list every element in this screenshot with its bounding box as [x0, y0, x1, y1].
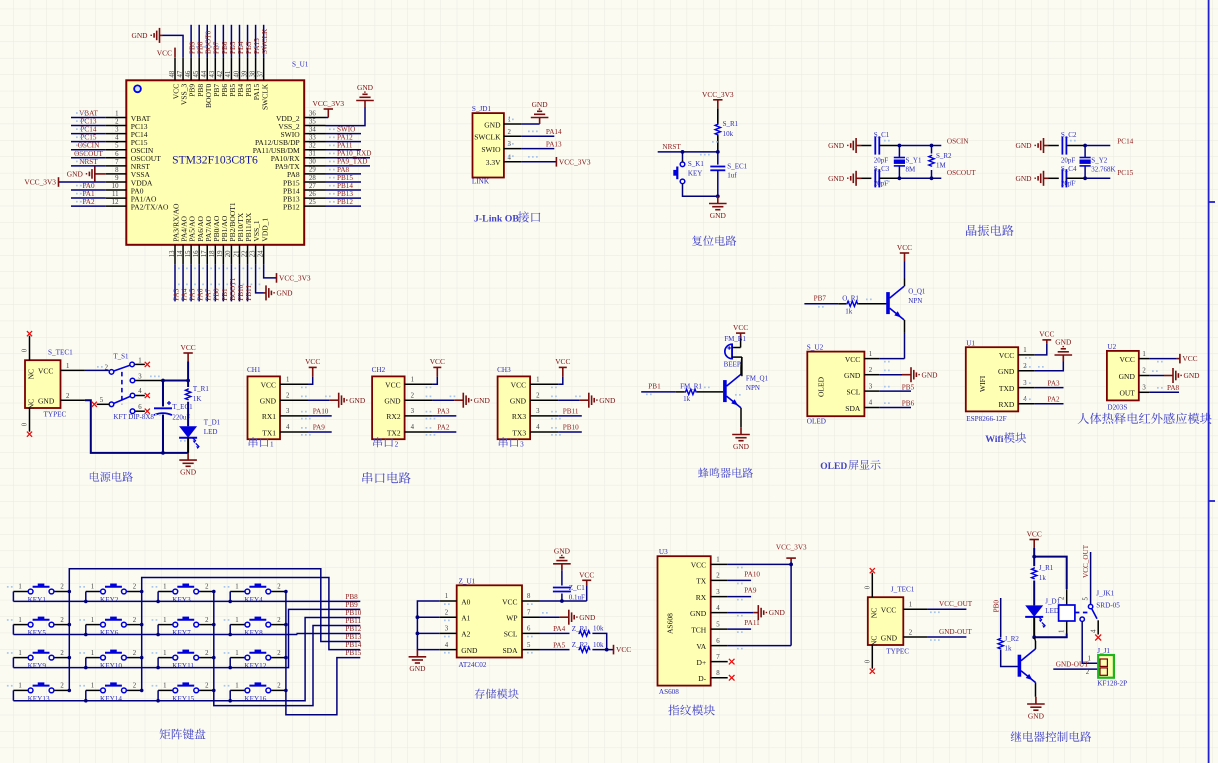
- svg-text:SCL: SCL: [504, 630, 518, 639]
- svg-text:5: 5: [527, 642, 531, 649]
- svg-text:OLED: OLED: [807, 418, 826, 426]
- svg-text:A1: A1: [461, 614, 470, 623]
- svg-text:1: 1: [115, 111, 118, 118]
- svg-text:47: 47: [177, 70, 184, 77]
- svg-text:21: 21: [233, 251, 240, 258]
- svg-text:KEY8: KEY8: [244, 629, 263, 637]
- svg-text:S_U2: S_U2: [807, 343, 824, 351]
- svg-text:39: 39: [241, 70, 248, 77]
- svg-text:LINK: LINK: [472, 178, 490, 186]
- svg-text:J_J1: J_J1: [1097, 647, 1110, 655]
- svg-text:GND: GND: [733, 442, 750, 451]
- svg-text:1: 1: [18, 650, 21, 657]
- svg-text:23: 23: [249, 250, 256, 257]
- svg-text:PB11: PB11: [345, 617, 361, 625]
- svg-text:VCC: VCC: [157, 49, 172, 58]
- svg-text:PA4: PA4: [553, 625, 566, 633]
- svg-text:FM_B1: FM_B1: [724, 335, 746, 343]
- svg-text:1: 1: [411, 376, 414, 383]
- svg-text:3: 3: [716, 589, 720, 596]
- svg-text:37: 37: [257, 70, 264, 77]
- svg-text:10k: 10k: [593, 641, 604, 649]
- svg-text:J_R2: J_R2: [1005, 635, 1020, 643]
- svg-text:4: 4: [536, 424, 540, 431]
- svg-text:GND: GND: [38, 397, 55, 406]
- svg-text:1: 1: [1023, 347, 1026, 354]
- svg-text:12: 12: [112, 199, 119, 206]
- svg-text:1: 1: [66, 363, 69, 370]
- svg-text:GND: GND: [349, 396, 366, 405]
- svg-text:PA12: PA12: [337, 134, 353, 142]
- svg-text:PB1: PB1: [648, 382, 661, 390]
- svg-text:PB15: PB15: [337, 174, 353, 182]
- svg-text:Z_U1: Z_U1: [459, 577, 476, 585]
- svg-text:AT24C02: AT24C02: [459, 661, 487, 669]
- svg-text:O_R1: O_R1: [842, 294, 859, 302]
- svg-text:3: 3: [520, 441, 524, 449]
- svg-text:3: 3: [115, 127, 119, 134]
- svg-text:NPN: NPN: [746, 384, 760, 392]
- svg-text:TYPEC: TYPEC: [44, 411, 67, 419]
- svg-text:OSCOUT: OSCOUT: [947, 169, 976, 177]
- svg-text:GND: GND: [579, 613, 596, 622]
- svg-text:GND: GND: [710, 211, 727, 220]
- svg-text:1: 1: [716, 557, 719, 564]
- svg-text:PB10: PB10: [345, 609, 361, 617]
- svg-text:0: 0: [864, 659, 871, 663]
- svg-text:PB1: PB1: [221, 288, 229, 301]
- svg-text:TX2: TX2: [387, 428, 401, 437]
- svg-text:BOOT1: BOOT1: [229, 277, 237, 301]
- svg-text:SDA: SDA: [502, 646, 518, 655]
- svg-text:Z_R1: Z_R1: [572, 625, 588, 633]
- svg-text:19: 19: [217, 250, 224, 257]
- svg-text:NRST: NRST: [79, 158, 98, 166]
- svg-text:PB11: PB11: [245, 285, 253, 301]
- svg-text:3: 3: [536, 408, 540, 415]
- svg-text:TX: TX: [696, 577, 707, 586]
- svg-text:RX2: RX2: [386, 412, 400, 421]
- svg-text:PA2: PA2: [1048, 395, 1061, 403]
- svg-text:1: 1: [18, 683, 21, 690]
- svg-text:43: 43: [209, 70, 216, 77]
- svg-text:7: 7: [115, 159, 119, 166]
- svg-text:1: 1: [163, 617, 166, 624]
- svg-text:PC15: PC15: [81, 134, 97, 142]
- svg-text:2: 2: [60, 584, 64, 591]
- svg-text:GND: GND: [599, 396, 616, 405]
- svg-text:GND: GND: [1119, 372, 1136, 381]
- svg-text:SWCLK: SWCLK: [474, 133, 501, 142]
- svg-text:U3: U3: [659, 548, 668, 556]
- svg-text:2: 2: [133, 650, 137, 657]
- svg-text:2: 2: [909, 630, 913, 637]
- svg-text:KEY10: KEY10: [100, 662, 122, 670]
- svg-text:PB5: PB5: [902, 383, 915, 391]
- svg-text:1: 1: [91, 584, 94, 591]
- svg-text:VCC: VCC: [897, 243, 912, 252]
- svg-text:LED: LED: [1045, 607, 1059, 615]
- svg-text:PC14: PC14: [81, 126, 97, 134]
- svg-text:GND: GND: [1184, 371, 1201, 380]
- svg-text:20pF: 20pF: [874, 156, 889, 164]
- svg-text:OSCOUT: OSCOUT: [74, 150, 103, 158]
- svg-text:D+: D+: [697, 658, 707, 667]
- svg-text:3.3V: 3.3V: [486, 158, 501, 167]
- svg-text:TXD: TXD: [999, 384, 1015, 393]
- svg-text:S_JD1: S_JD1: [472, 105, 492, 113]
- svg-text:VCC_3V3: VCC_3V3: [559, 157, 591, 166]
- svg-text:PA3: PA3: [1048, 379, 1061, 387]
- svg-text:VCC: VCC: [1027, 530, 1042, 539]
- svg-text:T_EC1: T_EC1: [172, 403, 193, 411]
- svg-text:PA8: PA8: [1167, 384, 1180, 392]
- svg-text:S_K1: S_K1: [688, 160, 704, 168]
- svg-text:27: 27: [309, 183, 316, 190]
- svg-text:RX1: RX1: [262, 412, 276, 421]
- svg-text:GND: GND: [1015, 174, 1032, 183]
- svg-text:AS608: AS608: [659, 688, 679, 696]
- svg-text:GND: GND: [384, 397, 401, 406]
- svg-text:PA9: PA9: [744, 586, 757, 594]
- svg-text:4: 4: [286, 424, 290, 431]
- svg-text:11: 11: [112, 191, 119, 198]
- svg-text:45: 45: [193, 70, 200, 77]
- svg-text:44: 44: [201, 70, 208, 77]
- svg-text:PB11: PB11: [563, 407, 579, 415]
- svg-text:PA3: PA3: [172, 288, 180, 301]
- svg-text:SWCLK: SWCLK: [260, 83, 269, 110]
- svg-text:S_U1: S_U1: [292, 61, 309, 69]
- svg-text:20: 20: [225, 250, 232, 257]
- svg-text:KEY1: KEY1: [28, 596, 47, 604]
- svg-text:KEY9: KEY9: [28, 662, 47, 670]
- svg-text:PA8: PA8: [337, 166, 350, 174]
- svg-text:CH3: CH3: [497, 366, 511, 374]
- svg-text:KFT DIP-8X8: KFT DIP-8X8: [113, 413, 154, 421]
- svg-text:Z_R2: Z_R2: [572, 641, 588, 649]
- svg-text:GND: GND: [690, 609, 707, 618]
- svg-text:7: 7: [716, 654, 720, 661]
- svg-text:KEY11: KEY11: [172, 662, 194, 670]
- svg-text:PC13: PC13: [81, 118, 97, 126]
- svg-text:GND: GND: [828, 174, 845, 183]
- svg-text:PB9: PB9: [189, 41, 197, 54]
- svg-text:1: 1: [18, 617, 21, 624]
- svg-text:GND: GND: [510, 397, 527, 406]
- svg-text:3: 3: [411, 408, 415, 415]
- svg-text:4: 4: [445, 642, 449, 649]
- svg-text:PA5: PA5: [553, 641, 566, 649]
- svg-text:SCL: SCL: [847, 387, 861, 396]
- svg-text:2: 2: [395, 441, 399, 449]
- svg-text:T_S1: T_S1: [113, 353, 129, 361]
- svg-text:2: 2: [60, 650, 64, 657]
- svg-text:VA: VA: [696, 642, 706, 651]
- svg-text:15: 15: [185, 250, 192, 257]
- svg-text:2: 2: [1142, 368, 1146, 375]
- svg-text:VCC: VCC: [430, 357, 445, 366]
- svg-text:VCC: VCC: [1182, 354, 1197, 363]
- svg-text:1: 1: [91, 683, 94, 690]
- svg-text:RX: RX: [696, 593, 707, 602]
- svg-text:2: 2: [105, 365, 109, 372]
- svg-text:VDD_1: VDD_1: [260, 218, 269, 242]
- svg-text:48: 48: [169, 70, 176, 77]
- svg-text:GND-OUT: GND-OUT: [939, 628, 972, 636]
- svg-text:40: 40: [233, 70, 240, 77]
- svg-text:0.1uF: 0.1uF: [569, 594, 585, 602]
- svg-text:PB14: PB14: [345, 641, 361, 649]
- svg-text:GND: GND: [484, 120, 501, 129]
- svg-text:VCC_OUT: VCC_OUT: [939, 600, 973, 608]
- svg-text:2: 2: [277, 650, 281, 657]
- svg-text:LED: LED: [204, 428, 218, 436]
- svg-text:BEEP: BEEP: [724, 361, 741, 369]
- svg-text:2: 2: [205, 584, 209, 591]
- svg-text:WP: WP: [506, 614, 517, 623]
- svg-text:1: 1: [163, 584, 166, 591]
- svg-text:3: 3: [286, 408, 290, 415]
- svg-text:PA9_TXD: PA9_TXD: [337, 158, 368, 166]
- svg-text:PB7: PB7: [814, 295, 827, 303]
- svg-text:J_TEC1: J_TEC1: [891, 586, 915, 594]
- svg-text:1k: 1k: [1039, 574, 1047, 582]
- svg-text:SDA: SDA: [845, 404, 861, 413]
- svg-text:KEY7: KEY7: [172, 629, 191, 637]
- svg-text:1: 1: [163, 650, 166, 657]
- svg-text:5: 5: [115, 143, 119, 150]
- svg-text:KEY: KEY: [688, 170, 702, 178]
- svg-text:2: 2: [716, 573, 720, 580]
- svg-text:GND: GND: [532, 100, 549, 109]
- svg-text:0: 0: [22, 422, 29, 426]
- svg-text:1: 1: [138, 358, 141, 365]
- svg-text:36: 36: [309, 110, 316, 117]
- svg-text:PA10_RXD: PA10_RXD: [337, 150, 371, 158]
- svg-text:TX3: TX3: [512, 428, 526, 437]
- svg-text:TX1: TX1: [262, 428, 276, 437]
- svg-text:PA2: PA2: [437, 424, 450, 432]
- svg-text:3: 3: [869, 383, 873, 390]
- svg-text:GND: GND: [1015, 141, 1032, 150]
- svg-text:GND: GND: [998, 367, 1015, 376]
- svg-text:8: 8: [115, 167, 119, 174]
- svg-text:D203S: D203S: [1107, 404, 1127, 412]
- svg-text:33: 33: [309, 134, 316, 141]
- svg-text:J-Link OB: J-Link OB: [474, 214, 519, 225]
- svg-text:VCC: VCC: [1039, 330, 1054, 339]
- svg-text:S_R1: S_R1: [723, 120, 739, 128]
- svg-text:OUT: OUT: [1119, 389, 1135, 398]
- svg-text:RX3: RX3: [512, 412, 526, 421]
- svg-text:PB12: PB12: [345, 625, 361, 633]
- svg-text:PB14: PB14: [337, 182, 353, 190]
- svg-text:KEY14: KEY14: [100, 695, 122, 703]
- svg-text:1: 1: [235, 617, 238, 624]
- svg-text:NRST: NRST: [662, 143, 681, 151]
- svg-text:2: 2: [1058, 596, 1065, 600]
- svg-text:6: 6: [115, 151, 119, 158]
- svg-text:OSCIN: OSCIN: [947, 137, 969, 145]
- svg-text:PA3: PA3: [437, 407, 450, 415]
- svg-text:35: 35: [309, 118, 316, 125]
- svg-text:6: 6: [716, 638, 720, 645]
- svg-text:4: 4: [115, 135, 119, 142]
- svg-text:3: 3: [138, 373, 142, 380]
- svg-text:14: 14: [177, 250, 184, 257]
- svg-text:KEY4: KEY4: [244, 596, 263, 604]
- svg-text:46: 46: [185, 70, 192, 77]
- svg-text:ESP8266-12F: ESP8266-12F: [966, 415, 1006, 423]
- svg-text:1: 1: [1142, 351, 1145, 358]
- svg-text:STM32F103C8T6: STM32F103C8T6: [172, 154, 258, 167]
- svg-text:KEY2: KEY2: [100, 596, 119, 604]
- svg-text:KEY6: KEY6: [100, 629, 119, 637]
- svg-text:SWCLK: SWCLK: [261, 28, 269, 54]
- svg-text:VCC: VCC: [845, 355, 860, 364]
- svg-text:Wifi: Wifi: [985, 434, 1004, 445]
- svg-text:GND: GND: [67, 170, 84, 179]
- svg-text:TCH: TCH: [691, 625, 707, 634]
- svg-text:PA10: PA10: [313, 407, 329, 415]
- svg-text:42: 42: [217, 70, 224, 77]
- svg-text:KEY16: KEY16: [244, 695, 266, 703]
- svg-text:D-: D-: [698, 674, 706, 683]
- svg-text:VCC: VCC: [1119, 355, 1134, 364]
- svg-text:PA11: PA11: [744, 619, 760, 627]
- svg-text:GND: GND: [881, 633, 898, 642]
- svg-text:VCC: VCC: [261, 381, 276, 390]
- svg-text:VCC: VCC: [881, 606, 896, 615]
- svg-text:4: 4: [1090, 629, 1097, 633]
- svg-text:PB0: PB0: [213, 288, 221, 301]
- svg-text:T_R1: T_R1: [193, 385, 209, 393]
- svg-text:GND: GND: [922, 370, 939, 379]
- svg-text:34: 34: [309, 126, 316, 133]
- svg-text:1: 1: [91, 617, 94, 624]
- svg-text:GND: GND: [554, 546, 571, 555]
- svg-text:GND-OUT: GND-OUT: [1056, 661, 1089, 669]
- svg-text:GND: GND: [474, 396, 491, 405]
- svg-text:PA6: PA6: [197, 288, 205, 301]
- svg-text:VCC: VCC: [305, 357, 320, 366]
- svg-text:GND: GND: [769, 608, 786, 617]
- svg-text:4: 4: [716, 605, 720, 612]
- svg-text:2: 2: [411, 392, 415, 399]
- svg-text:RXD: RXD: [998, 400, 1014, 409]
- svg-text:0: 0: [864, 585, 871, 589]
- svg-text:NC: NC: [869, 636, 878, 646]
- svg-text:WIFI: WIFI: [978, 375, 987, 392]
- svg-text:2: 2: [1086, 669, 1090, 676]
- svg-text:GND: GND: [461, 646, 478, 655]
- svg-text:PB9: PB9: [345, 601, 358, 609]
- svg-text:O_Q1: O_Q1: [908, 287, 926, 295]
- svg-text:17: 17: [201, 250, 208, 257]
- svg-text:GND: GND: [828, 141, 845, 150]
- svg-text:S_Y1: S_Y1: [906, 156, 922, 164]
- svg-text:PB13: PB13: [345, 633, 361, 641]
- svg-text:VCC_3V3: VCC_3V3: [702, 90, 734, 99]
- svg-text:VCC_3V3: VCC_3V3: [24, 178, 56, 187]
- svg-text:5: 5: [100, 397, 104, 404]
- svg-text:1: 1: [909, 602, 912, 609]
- svg-text:S_C2: S_C2: [1061, 131, 1077, 139]
- svg-text:GND: GND: [180, 467, 197, 476]
- svg-text:KEY5: KEY5: [28, 629, 47, 637]
- svg-text:32.768K: 32.768K: [1091, 165, 1115, 173]
- svg-text:1: 1: [270, 441, 274, 449]
- svg-text:9: 9: [115, 175, 119, 182]
- svg-text:NC: NC: [869, 608, 878, 618]
- svg-text:VCC: VCC: [616, 645, 631, 654]
- svg-text:GND: GND: [260, 397, 277, 406]
- svg-text:PB10: PB10: [563, 424, 579, 432]
- svg-text:5: 5: [1082, 597, 1089, 601]
- svg-text:VCC: VCC: [38, 367, 53, 376]
- svg-text:S_R2: S_R2: [936, 152, 952, 160]
- svg-text:8: 8: [716, 670, 720, 677]
- svg-text:CH1: CH1: [247, 366, 261, 374]
- svg-text:VCC: VCC: [555, 357, 570, 366]
- svg-text:FM_R1: FM_R1: [680, 382, 702, 390]
- svg-text:1k: 1k: [1005, 644, 1013, 652]
- svg-text:TYPEC: TYPEC: [886, 648, 909, 656]
- svg-text:4: 4: [138, 388, 142, 395]
- svg-text:A0: A0: [461, 597, 470, 606]
- svg-text:2: 2: [133, 683, 137, 690]
- svg-text:16: 16: [193, 250, 200, 257]
- svg-text:Z_C1: Z_C1: [569, 584, 585, 592]
- svg-text:10k: 10k: [593, 625, 604, 633]
- svg-text:GND: GND: [131, 31, 148, 40]
- svg-text:6: 6: [527, 626, 531, 633]
- svg-text:OLED: OLED: [820, 462, 847, 472]
- svg-text:VCC: VCC: [502, 597, 517, 606]
- svg-text:2: 2: [133, 584, 137, 591]
- svg-text:2: 2: [445, 609, 449, 616]
- svg-text:8M: 8M: [906, 165, 917, 173]
- svg-text:GND: GND: [844, 371, 861, 380]
- svg-text:2: 2: [869, 367, 873, 374]
- svg-text:T_D1: T_D1: [204, 418, 221, 426]
- svg-text:VCC_3V3: VCC_3V3: [279, 274, 311, 283]
- svg-text:VCC_OUT: VCC_OUT: [1082, 544, 1090, 578]
- svg-text:1: 1: [235, 650, 238, 657]
- svg-text:1: 1: [536, 376, 539, 383]
- svg-text:S_Y2: S_Y2: [1091, 156, 1107, 164]
- svg-text:1M: 1M: [936, 162, 947, 170]
- svg-text:SWIO: SWIO: [337, 126, 355, 134]
- svg-text:2: 2: [536, 392, 540, 399]
- svg-text:31: 31: [309, 151, 316, 158]
- svg-text:SWIO: SWIO: [481, 145, 501, 154]
- svg-text:VBAT: VBAT: [79, 110, 98, 118]
- svg-text:S_C3: S_C3: [874, 165, 890, 173]
- svg-text:0: 0: [22, 348, 29, 352]
- svg-text:GND: GND: [357, 83, 374, 92]
- svg-text:1: 1: [1058, 630, 1065, 633]
- svg-text:20pF: 20pF: [1061, 156, 1076, 164]
- svg-text:VCC_3V3: VCC_3V3: [776, 543, 807, 551]
- svg-text:VCC: VCC: [511, 381, 526, 390]
- svg-text:PB10: PB10: [237, 284, 245, 300]
- svg-text:1: 1: [235, 683, 238, 690]
- svg-text:PB15: PB15: [345, 649, 361, 657]
- svg-text:2: 2: [205, 683, 209, 690]
- svg-text:VCC: VCC: [733, 323, 748, 332]
